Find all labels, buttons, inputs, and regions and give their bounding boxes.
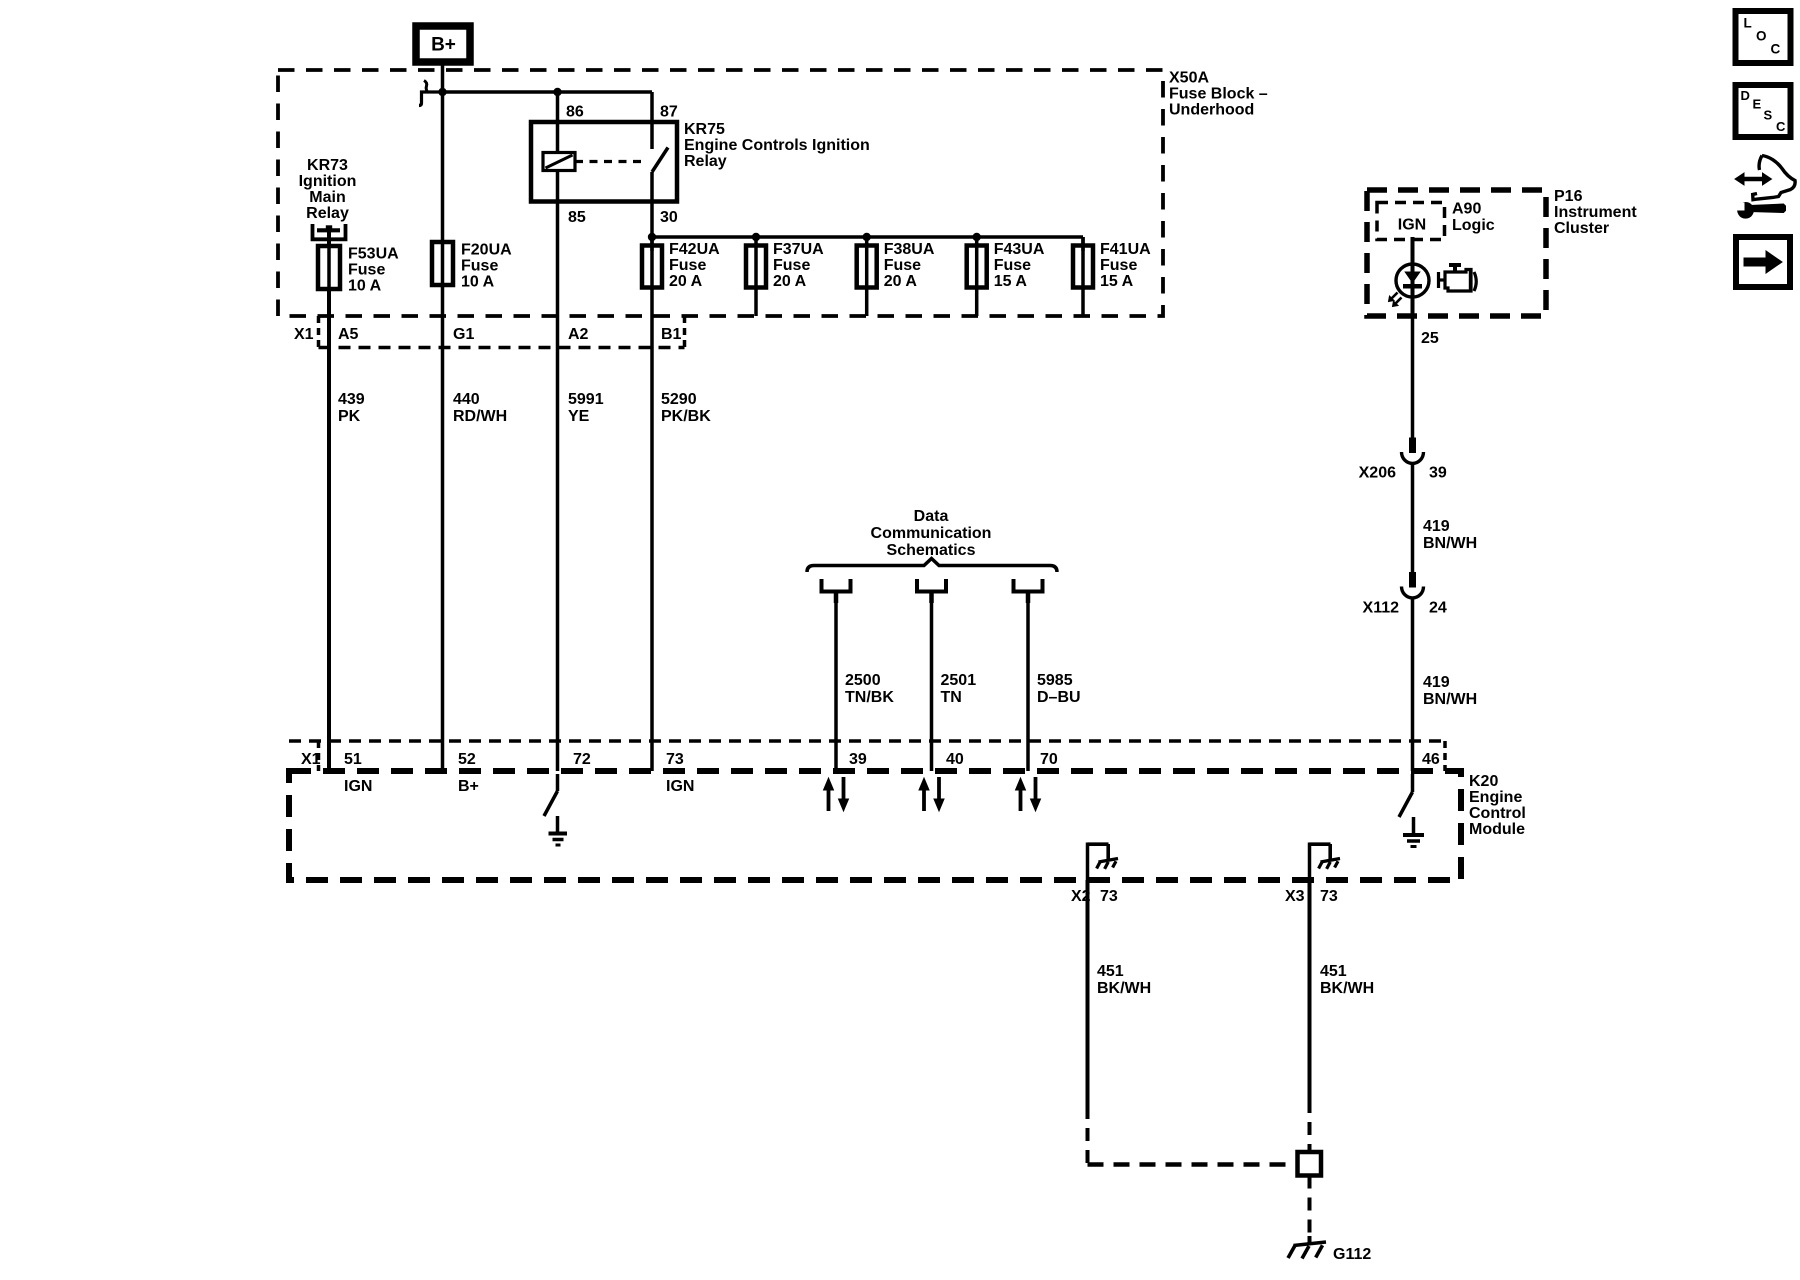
wire 440 RD/WH [441,316,445,771]
wire F41UA down to block edge [1081,288,1085,317]
svg-text:IGN: IGN [666,778,694,795]
wire X2 ground internal [1086,843,1090,881]
svg-text:YE: YE [568,408,590,425]
wire F38UA stub [865,237,869,246]
svg-text:Schematics: Schematics [887,542,976,559]
chassis ground X2 [1099,859,1119,863]
svg-text:70: 70 [1040,751,1058,768]
wire 30 down to bus [650,202,654,252]
svg-text:BN/WH: BN/WH [1423,691,1477,708]
svg-text:Fuse: Fuse [994,257,1031,274]
wire 451 BK/WH right [1308,880,1312,1100]
svg-text:Underhood: Underhood [1169,102,1254,119]
wire F43UA stub [975,237,979,246]
LED emission arrows [1391,293,1398,300]
node junction bus F42UA [648,233,656,241]
svg-text:51: 51 [344,751,362,768]
svg-text:E: E [1753,97,1762,112]
svg-text:24: 24 [1429,600,1447,617]
wire F37UA stub [754,237,758,246]
icon DESC box [1736,85,1791,137]
svg-text:73: 73 [1320,888,1338,905]
svg-text:Module: Module [1469,821,1525,838]
svg-text:Main: Main [309,189,345,206]
arrows pin39 [827,789,831,811]
svg-text:20 A: 20 A [669,273,703,290]
icon wrench [1738,203,1754,219]
node junction at 86 [553,88,561,96]
fuse F53UA [318,246,340,289]
fuse F41UA [1073,246,1093,288]
fuse block X50A dashed box [278,70,1163,316]
svg-text:15 A: 15 A [1100,273,1134,290]
svg-text:D–BU: D–BU [1037,689,1081,706]
ground internal pin46 [1412,817,1416,834]
svg-text:2500: 2500 [845,672,881,689]
svg-text:X112: X112 [1363,600,1400,617]
svg-text:Communication: Communication [871,525,992,542]
fuse F20UA [432,242,453,285]
fuse F38UA [857,246,877,288]
wire coil feed 86 inside relay [556,122,560,153]
svg-text:439: 439 [338,391,365,408]
engine icon MIL [1449,263,1461,267]
wire F38UA down to block edge [865,288,869,317]
splice hook symbol [419,92,442,106]
svg-text:B+: B+ [431,35,456,56]
node junction bus F38UA [863,233,871,241]
svg-text:A90: A90 [1452,201,1481,218]
svg-text:5290: 5290 [661,391,697,408]
wire splice to ground dashed [1308,1176,1312,1237]
svg-text:Fuse: Fuse [669,257,706,274]
connector X206 [1409,438,1416,454]
svg-text:Cluster: Cluster [1554,220,1609,237]
svg-text:10 A: 10 A [348,278,382,295]
svg-text:10 A: 10 A [461,274,495,291]
wire 451 right dashed to splice [1308,1100,1312,1152]
fuse F37UA [746,246,766,288]
wire bus elbow to F41UA [1081,237,1085,251]
wire 5985 stub [1026,594,1031,604]
wire branch 86 [556,92,560,122]
svg-text:PK: PK [338,408,361,425]
relay KR75 contact dashed link [575,160,646,163]
wire branch 87 [650,92,654,122]
icon double arrow [1743,177,1764,182]
svg-text:KR75: KR75 [684,121,725,138]
svg-text:TN: TN [941,689,962,706]
wire 451 BK/WH left [1086,880,1090,1106]
svg-text:TN/BK: TN/BK [845,689,894,706]
wire 2500 stub [834,594,839,604]
svg-text:D: D [1741,88,1750,103]
svg-text:25: 25 [1421,330,1439,347]
brace data communication [807,559,1057,573]
icon part outline [1753,156,1795,200]
svg-text:46: 46 [1422,751,1440,768]
power symbol B+ [416,26,470,62]
wire lamp down to cluster edge [1411,296,1415,316]
svg-text:KR73: KR73 [307,157,348,174]
wire 2501 [930,594,934,772]
logic box IGN dashed [1377,203,1445,240]
svg-text:F20UA: F20UA [461,242,512,259]
svg-text:A2: A2 [568,326,589,343]
svg-text:P16: P16 [1554,188,1583,205]
svg-text:C: C [1776,119,1786,134]
svg-text:73: 73 [1100,888,1118,905]
wire 451 left dashed [1086,1106,1090,1165]
svg-text:IGN: IGN [1398,217,1426,234]
connector row X1 ECM thin dashed [289,739,1445,743]
svg-text:X3: X3 [1285,888,1305,905]
wire 2500 [834,594,838,772]
switch internal pin72 [556,774,560,791]
svg-text:Logic: Logic [1452,217,1495,234]
svg-text:BN/WH: BN/WH [1423,535,1477,552]
connector X1 ECM separator [317,741,321,771]
wire 419 BN/WH middle [1411,464,1415,572]
svg-text:Fuse: Fuse [773,257,810,274]
fuse F43UA [967,246,987,288]
wire 419 BN/WH upper [1411,316,1415,438]
module P16 instrument cluster dashed box [1367,190,1546,316]
svg-text:F38UA: F38UA [884,241,935,258]
svg-text:5991: 5991 [568,391,604,408]
ground internal pin72 [556,816,560,833]
wire 85 down [556,202,560,317]
svg-text:20 A: 20 A [884,273,918,290]
wire top bus from B+ [443,90,653,94]
svg-text:G112: G112 [1333,1246,1371,1263]
svg-text:20 A: 20 A [773,273,807,290]
svg-text:Control: Control [1469,805,1526,822]
wire 5991 YE [556,316,560,771]
svg-text:451: 451 [1320,963,1347,980]
icon arrow box [1736,237,1790,287]
svg-text:X206: X206 [1359,465,1396,482]
svg-text:85: 85 [568,209,586,226]
svg-text:X50A: X50A [1169,70,1209,87]
wire B+ to F20UA [441,92,445,316]
wire 30 stub [650,172,654,202]
switch internal pin46 [1411,774,1415,792]
svg-text:15 A: 15 A [994,273,1028,290]
svg-text:K20: K20 [1469,773,1498,790]
relay KR75 box [531,122,677,202]
svg-text:39: 39 [1429,465,1447,482]
wire bus 30 [652,235,1083,239]
svg-text:Fuse: Fuse [884,257,921,274]
wire F41UA stub [1081,237,1085,246]
connector X112 [1409,572,1416,588]
svg-text:F41UA: F41UA [1100,241,1151,258]
svg-text:IGN: IGN [344,778,372,795]
svg-text:39: 39 [849,751,867,768]
svg-text:L: L [1744,16,1752,31]
svg-text:Fuse: Fuse [461,258,498,275]
wire 419 BN/WH lower [1411,599,1415,772]
svg-text:87: 87 [660,104,678,121]
svg-text:X1: X1 [294,326,314,343]
svg-text:F37UA: F37UA [773,241,824,258]
splice box S-connector [1298,1152,1322,1176]
wire F37UA down to block edge [754,288,758,317]
connector row X1 bottom dashed [319,346,685,350]
wire F42UA stub [650,237,654,246]
svg-text:C: C [1771,42,1781,57]
svg-text:2501: 2501 [941,672,977,689]
wire 87 stub inside relay [650,122,654,149]
wire IGN to lamp [1411,237,1415,264]
svg-text:Engine Controls Ignition: Engine Controls Ignition [684,137,870,154]
wire 5985 [1026,594,1030,772]
svg-text:B+: B+ [458,778,479,795]
svg-text:F43UA: F43UA [994,241,1045,258]
svg-text:B1: B1 [661,326,682,343]
relay KR75 switch blade [652,148,668,173]
svg-text:S: S [1764,108,1773,123]
svg-text:52: 52 [458,751,476,768]
svg-text:451: 451 [1097,963,1124,980]
svg-text:419: 419 [1423,674,1450,691]
svg-text:F42UA: F42UA [669,241,720,258]
wire X3 ground internal [1308,843,1312,881]
svg-text:Relay: Relay [306,205,349,222]
node junction bus F37UA [752,233,760,241]
svg-text:5985: 5985 [1037,672,1073,689]
svg-text:73: 73 [666,751,684,768]
fuse F42UA [642,246,662,288]
svg-text:F53UA: F53UA [348,246,399,263]
icon LOC box [1736,11,1791,63]
svg-text:BK/WH: BK/WH [1097,980,1151,997]
node junction at B+ [438,88,446,96]
LED triangle [1405,272,1420,283]
svg-text:30: 30 [660,209,678,226]
connector bracket data wire 2501 [917,579,946,592]
chassis ground X3 [1321,859,1341,863]
svg-text:A5: A5 [338,326,359,343]
svg-text:Fuse: Fuse [348,262,385,279]
svg-text:Instrument: Instrument [1554,204,1637,221]
wire through lamp [1411,264,1415,296]
wire B+ feed down [441,62,445,92]
svg-text:419: 419 [1423,518,1450,535]
svg-text:Engine: Engine [1469,789,1522,806]
svg-text:40: 40 [946,751,964,768]
svg-text:Fuse Block –: Fuse Block – [1169,86,1268,103]
svg-text:440: 440 [453,391,480,408]
svg-text:RD/WH: RD/WH [453,408,507,425]
module K20 ECM dashed box [289,771,1461,880]
wire splice dashed horizontal [1088,1162,1294,1167]
svg-text:G1: G1 [453,326,474,343]
svg-text:PK/BK: PK/BK [661,408,711,425]
svg-text:BK/WH: BK/WH [1320,980,1374,997]
svg-text:Ignition: Ignition [299,173,357,190]
svg-text:O: O [1756,29,1767,44]
wire 5290 PK/BK [650,288,654,772]
ground G112 [1308,1236,1312,1244]
wire 439 PK [327,316,331,771]
relay KR75 coil [543,153,575,171]
svg-text:Relay: Relay [684,153,727,170]
svg-text:Fuse: Fuse [1100,257,1137,274]
wire F53UA down [327,289,331,316]
svg-text:Data: Data [914,508,949,525]
svg-text:72: 72 [573,751,591,768]
wire 2501 stub [929,594,934,604]
node junction bus F43UA [973,233,981,241]
svg-text:86: 86 [566,104,584,121]
connector bracket data wire 2500 [822,579,851,592]
connector X1 separator dash [317,316,321,348]
relay KR73 coil symbol [313,224,346,239]
wire F43UA down to block edge [975,288,979,317]
indicator lamp MIL circle [1396,264,1429,297]
connector bracket data wire 5985 [1014,579,1043,592]
wire KR73 to fuse F53UA [327,228,331,246]
